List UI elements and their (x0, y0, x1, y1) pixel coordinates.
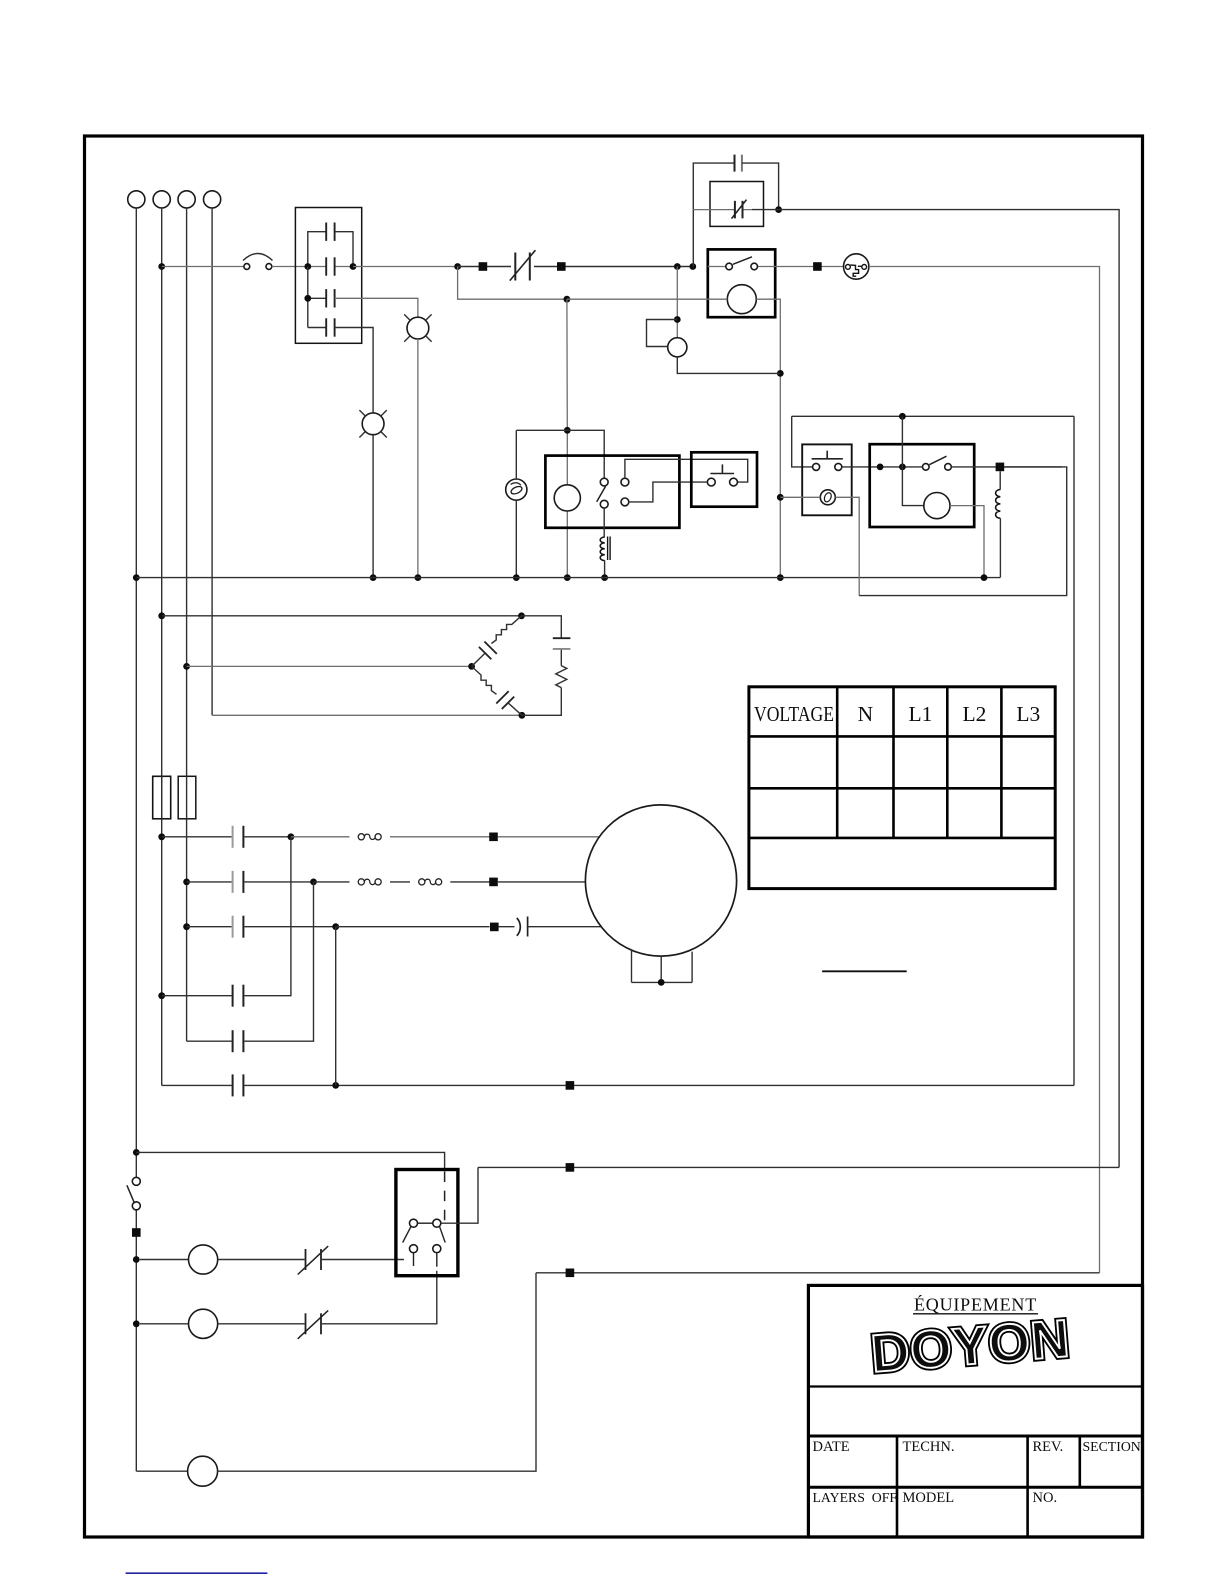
wire bus node down to lamp H6 (674, 267, 681, 338)
wire row1 to motor (489, 833, 599, 842)
logo EQUIPEMENT (913, 1294, 1038, 1315)
wire horizontal lamp H4 to switch drop (516, 430, 604, 478)
resistor R3 (556, 666, 567, 688)
wire right rail 1074 (1073, 416, 1075, 1085)
svg-text:L3: L3 (1016, 702, 1040, 726)
wire K3 switch to inductor (603, 508, 605, 536)
svg-text:SECTION: SECTION (1083, 1439, 1141, 1454)
svg-text:LAYERS OFF: LAYERS OFF (813, 1490, 898, 1505)
svg-text:MODEL: MODEL (903, 1490, 955, 1506)
lamp H5 (820, 490, 835, 505)
wire plug to right grey rail (869, 267, 1100, 1273)
contactor K1 contact D (308, 318, 336, 336)
fuse F2 wire through (186, 776, 188, 819)
pilot box B (802, 444, 852, 515)
pushbutton S5 (812, 451, 843, 471)
relay K2 coil (727, 285, 756, 314)
overload OL1 (291, 834, 490, 840)
wire contact C to lamp H1 (335, 298, 418, 317)
svg-text:VOLTAGE: VOLTAGE (754, 702, 834, 726)
pump P3 (136, 1456, 217, 1486)
fuse F1 (153, 776, 171, 819)
NC contact S7 (218, 1246, 404, 1274)
wire K4 switch to terminal square (951, 463, 1062, 472)
wire rail 4 (211, 208, 213, 715)
relay K3 aux contacts (621, 478, 629, 506)
plug X2 dashed lead (444, 1172, 446, 1229)
capacitor C1 (734, 155, 743, 172)
wire K3 bottom contact to pushbutton S4 (629, 482, 708, 502)
wire rail 2 (158, 208, 165, 1085)
resistor R2 with capacitor C2b (lower diagonal) (472, 666, 522, 715)
wire delta mid feed (187, 663, 475, 670)
pump P1 (140, 1245, 218, 1274)
wire switch to contactor (272, 266, 308, 268)
wire vertical net to relay K3 (564, 299, 571, 581)
lamp H4 (506, 479, 527, 500)
relay K2 box (708, 249, 775, 317)
resistor R1 with capacitor C2 (upper diagonal) (472, 616, 522, 667)
capacitor C3 (553, 638, 571, 649)
wire bus contactor to node (353, 263, 461, 270)
wire row6 to rail 1074 (566, 1081, 1074, 1090)
contactor K1 contact C (304, 267, 335, 328)
wire riser to capacitor C1 (693, 163, 734, 266)
relay K4 switch (923, 456, 952, 470)
inductor L2 (996, 471, 1001, 577)
switch S1 disconnect (243, 254, 273, 270)
svg-text:TECHN.: TECHN. (903, 1439, 955, 1455)
wire K4 coil to bus (950, 506, 987, 581)
wire control horizontal 416 (792, 413, 1074, 467)
relay K2 switch (708, 257, 775, 270)
wire delta bottom feed (212, 712, 525, 719)
contact row 4 (K2a) (162, 837, 291, 1007)
contactor K1 contact B (main) (304, 257, 356, 275)
contactor K1 box (295, 208, 361, 344)
terminal T3 (178, 191, 195, 208)
svg-text:L2: L2 (962, 702, 986, 726)
svg-text:NO.: NO. (1033, 1490, 1058, 1506)
relay K4 coil (924, 493, 950, 519)
wire rail 3 (183, 208, 190, 1041)
table VOLTAGE (749, 687, 1055, 889)
svg-text:REV.: REV. (1033, 1439, 1064, 1455)
fuse F2 (178, 776, 196, 819)
wire row2 to motor (489, 878, 585, 887)
wire top feed to plug X2 (136, 1152, 444, 1169)
fuse F1 wire through (161, 776, 163, 819)
lamp H2 (359, 410, 386, 437)
wire coil line K2 (567, 299, 784, 581)
wire lamp H1 to bottom bus (415, 339, 422, 581)
plug X2 contacts (403, 1219, 446, 1267)
NC contact box S3 (710, 182, 764, 227)
wire delta top feed (162, 612, 525, 619)
wire lamp H6 to vertical 780 (677, 357, 780, 374)
wire K3 top contact to pushbutton S4 (625, 459, 748, 482)
NC contact S3 (693, 200, 752, 219)
wire delta right branch (522, 616, 562, 716)
wire lamp H4 top (515, 430, 517, 479)
label underline mark (822, 970, 907, 972)
wire row3 drop to row6 (335, 927, 337, 1086)
pump P2 (140, 1309, 218, 1338)
wire rail 1 (leftmost, neutral) (133, 208, 140, 1471)
relay K3 coil (554, 485, 580, 511)
NC contact S8 (218, 1271, 437, 1339)
logo DOYON (869, 1309, 1072, 1384)
wire bottom bus (136, 577, 1000, 579)
pushbutton S4 box (691, 452, 757, 506)
contactor K1 contact A (top) (308, 223, 353, 267)
relay K4 box (870, 444, 975, 527)
wire row3 to capacitor C4 (336, 923, 515, 932)
contact row 2 (K1b) (187, 871, 317, 893)
wire lamp H5 right loop (835, 467, 1066, 596)
capacitor C4 (curved) (517, 917, 601, 937)
wire bus relay K2 to plug (775, 262, 843, 271)
terminal T2 (153, 191, 170, 208)
wire S5 to relay K4 (842, 464, 923, 471)
wire pump P3 to right riser (218, 1273, 536, 1471)
terminal T1 (128, 191, 145, 208)
wire inductor L1 to bus (601, 560, 608, 581)
svg-text:DATE: DATE (813, 1439, 850, 1455)
plug box X2 (396, 1170, 458, 1276)
wire lamp H5 left (780, 496, 820, 498)
terminal T4 (204, 191, 221, 208)
wire contact D to lamp H2 (335, 328, 374, 413)
title block frame (808, 1285, 1142, 1537)
terminal square TS2 (534, 262, 696, 271)
wire horizontal 1273 (536, 1269, 1100, 1278)
inductor L1 (600, 537, 610, 561)
wire horizontal 1167 (478, 1163, 1119, 1172)
wire lamp H6 bypass loop (647, 320, 678, 347)
svg-text:N: N (858, 702, 874, 726)
wire lamp H2 to bottom bus (370, 435, 377, 581)
terminal square TS3 (132, 1228, 141, 1237)
pushbutton S4 (707, 464, 737, 486)
terminal square TS1 (458, 262, 511, 271)
switch S6 (127, 1177, 140, 1210)
wire node down to coil line (458, 267, 571, 303)
wire K4 coil feed (902, 416, 923, 505)
link underline mark (126, 1572, 268, 1574)
wire lamp H4 bottom to bus (513, 500, 520, 581)
lamp H1 (404, 314, 431, 341)
NC contact S2 (flow switch) (510, 250, 536, 280)
contact row 1 (K1a) (162, 826, 295, 848)
lamp H6 (668, 338, 687, 357)
contact row 5 (K2b) (187, 882, 314, 1052)
relay K3 box (545, 456, 679, 528)
svg-text:ÉQUIPEMENT: ÉQUIPEMENT (914, 1294, 1037, 1315)
svg-text:L1: L1 (908, 702, 932, 726)
motor M1 (main) (585, 805, 736, 986)
wire plug X2 right lead (441, 1167, 478, 1223)
overload OL2 (314, 879, 490, 885)
plug socket X1 (844, 254, 869, 279)
wire S3 to right rail (752, 210, 1119, 1168)
contact row 6 (K2c) (162, 1074, 566, 1096)
relay K3 switch (597, 478, 608, 508)
wire capacitor C1 right (742, 163, 782, 213)
contact row 3 (K1c) (187, 916, 340, 938)
wire top bus left (162, 266, 244, 268)
